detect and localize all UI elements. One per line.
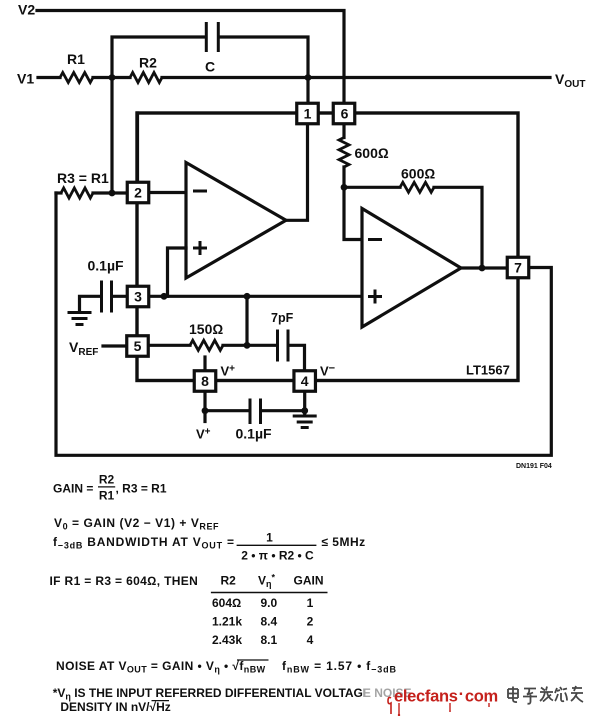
node B junction dot — [305, 74, 312, 81]
svg-text:0.1µF: 0.1µF — [236, 426, 273, 442]
svg-text:C: C — [205, 59, 215, 75]
svg-text:V−: V− — [320, 363, 335, 379]
svg-text:2: 2 — [134, 185, 142, 201]
resistor R3 — [61, 188, 93, 198]
wire V2 input to pin 6 — [37, 11, 344, 104]
node pin8 junction dot — [202, 407, 209, 414]
wire pin4 external to ground — [303, 392, 306, 416]
svg-text:fnBW = 1.57 • f−3dB: fnBW = 1.57 • f−3dB — [282, 659, 397, 675]
wire R2 to VOUT — [162, 76, 550, 79]
op-amp U2 — [362, 209, 461, 328]
node 150 ohm junction dot — [244, 342, 251, 349]
wire C left branch — [112, 37, 205, 78]
wire mid junction down to 150 ohm row — [245, 296, 248, 345]
svg-text:GAIN =: GAIN = — [53, 482, 93, 496]
svg-text:DENSITY IN nV/√Hz: DENSITY IN nV/√Hz — [60, 700, 170, 714]
wire pin8 external to V+ terminal — [203, 392, 206, 422]
pin 5 — [127, 336, 149, 357]
wire VREF to pin 5 — [103, 344, 126, 347]
svg-text:R2: R2 — [139, 55, 157, 71]
svg-text:GAIN: GAIN — [294, 574, 324, 588]
node 600 ohm junction dot — [341, 184, 348, 191]
ground — [293, 416, 317, 428]
resistor R2 — [130, 73, 162, 83]
pin 8 — [194, 371, 216, 392]
svg-text:2 • π • R2 • C: 2 • π • R2 • C — [241, 549, 314, 563]
op-amp U1 — [186, 163, 286, 279]
wire pin2 to op-amp U1 inverting input — [150, 191, 187, 194]
wire pin3 internal rail to op-amp U2 non-inverting input — [150, 295, 363, 298]
svg-text:2: 2 — [307, 615, 314, 629]
node A junction dot — [109, 74, 116, 81]
IC outline LT1567 package — [137, 113, 518, 381]
pin 7 — [507, 257, 529, 278]
node pin3 junction dot — [161, 293, 168, 300]
node pin4 junction dot — [301, 407, 308, 414]
wire left end to R3 — [56, 191, 61, 194]
wire pin8 internal stub — [203, 357, 206, 370]
wire pin8 node to 0.1uF supply cap — [205, 409, 248, 412]
svg-text:6: 6 — [341, 106, 349, 122]
wire pin3 external to 0.1uF — [114, 295, 127, 298]
svg-text:7: 7 — [514, 260, 522, 276]
svg-text:DN191 F04: DN191 F04 — [516, 463, 552, 470]
svg-text:IF R1 = R3 = 604Ω, THEN: IF R1 = R3 = 604Ω, THEN — [50, 574, 199, 588]
svg-text:NOISE AT VOUT = GAIN • Vη • √f: NOISE AT VOUT = GAIN • Vη • √fnBW — [56, 659, 266, 675]
svg-text:V1: V1 — [17, 71, 34, 87]
wire R1 to R2 — [93, 76, 130, 79]
svg-text:LT1567: LT1567 — [466, 363, 510, 378]
svg-text:9.0: 9.0 — [261, 596, 278, 610]
node R3 junction dot — [109, 190, 116, 197]
svg-text:8.1: 8.1 — [261, 633, 278, 647]
pin 6 — [333, 103, 355, 124]
wire C right branch to pin 1 — [220, 37, 308, 103]
watermark fade box — [364, 679, 597, 716]
svg-text:1: 1 — [304, 106, 312, 122]
svg-text:R3 = R1: R3 = R1 — [57, 170, 109, 186]
wire V1 input to R1 — [38, 76, 60, 79]
svg-text:4: 4 — [307, 633, 314, 647]
capacitor 0.1uF supply — [250, 399, 261, 425]
svg-text:8: 8 — [201, 373, 209, 389]
wire feedback loop pin7 right down bottom left up to R3 — [56, 193, 551, 455]
svg-text:1.21k: 1.21k — [212, 615, 242, 629]
resistor R1 — [60, 73, 93, 83]
wire op-amp U1 non-inverting input from pin3 node — [168, 248, 187, 296]
capacitor C — [206, 22, 218, 52]
wire 0.1uF supply to pin4 node — [263, 409, 305, 412]
wire pin6 down to 600 ohm — [342, 125, 345, 138]
watermark elecfans.com — [388, 686, 498, 716]
svg-text:elecfans·com: elecfans·com — [394, 686, 498, 706]
svg-text:604Ω: 604Ω — [212, 596, 241, 610]
pin 4 — [294, 371, 316, 392]
svg-text:150Ω: 150Ω — [189, 321, 223, 337]
wire 600 ohm feedback down to output node — [434, 187, 482, 268]
svg-text:V2: V2 — [18, 2, 35, 18]
formula text block — [50, 473, 412, 715]
pin 2 — [127, 182, 149, 203]
svg-text:VREF: VREF — [69, 339, 98, 358]
svg-text:600Ω: 600Ω — [401, 166, 435, 182]
node mid junction dot — [244, 293, 251, 300]
svg-text:7pF: 7pF — [271, 311, 294, 325]
svg-text:R2: R2 — [99, 473, 115, 487]
capacitor 0.1uF bypass — [102, 281, 112, 313]
capacitor 7pF — [278, 330, 289, 362]
svg-text:4: 4 — [301, 373, 309, 389]
svg-text:Vη*: Vη* — [258, 573, 276, 590]
wire junction to 600 ohm feedback — [344, 186, 400, 189]
svg-text:1: 1 — [266, 530, 273, 544]
ground — [68, 313, 92, 325]
watermark chinese characters — [508, 686, 583, 704]
svg-text:5: 5 — [134, 338, 142, 354]
svg-text:R2: R2 — [221, 574, 237, 588]
pin 1 — [297, 103, 319, 124]
svg-text:1: 1 — [307, 596, 314, 610]
wire node A down to R3 row — [110, 78, 113, 194]
resistor 150 ohm — [190, 340, 223, 350]
svg-text:, R3 = R1: , R3 = R1 — [116, 482, 167, 496]
wire R3 to pin 2 — [93, 191, 127, 194]
wire 7pF to pin 4 — [290, 345, 305, 370]
svg-text:8.4: 8.4 — [261, 615, 278, 629]
wire 0.1uF to ground — [80, 296, 100, 311]
svg-text:V+: V+ — [221, 364, 236, 379]
wire op-amp U2 output to pin 7 — [461, 266, 507, 269]
resistor 600 ohm feedback — [400, 182, 434, 192]
svg-text:V+: V+ — [196, 427, 211, 442]
pin 3 — [127, 286, 149, 307]
wire pin2 top stub to IC corner — [136, 113, 139, 182]
svg-text:≤ 5MHz: ≤ 5MHz — [321, 535, 365, 549]
svg-text:R1: R1 — [99, 489, 115, 503]
svg-text:3: 3 — [134, 289, 142, 305]
svg-text:f−3dB BANDWIDTH AT VOUT =: f−3dB BANDWIDTH AT VOUT = — [53, 535, 235, 551]
svg-text:0.1µF: 0.1µF — [88, 258, 125, 274]
svg-text:R1: R1 — [67, 51, 85, 67]
svg-text:2.43k: 2.43k — [212, 633, 242, 647]
wire op-amp U1 output up to pin 1 — [286, 125, 308, 221]
node output junction dot — [479, 265, 486, 272]
wire pin5 to 150 ohm — [150, 344, 191, 347]
wire 150 ohm to junction — [223, 344, 276, 347]
svg-text:VOUT: VOUT — [555, 71, 585, 90]
svg-text:V0 = GAIN (V2 − V1) + VREF: V0 = GAIN (V2 − V1) + VREF — [54, 516, 219, 532]
resistor 600 ohm vertical — [339, 138, 349, 168]
svg-text:600Ω: 600Ω — [355, 145, 389, 161]
wire 600 ohm to op-amp U2 inverting input — [344, 167, 362, 240]
